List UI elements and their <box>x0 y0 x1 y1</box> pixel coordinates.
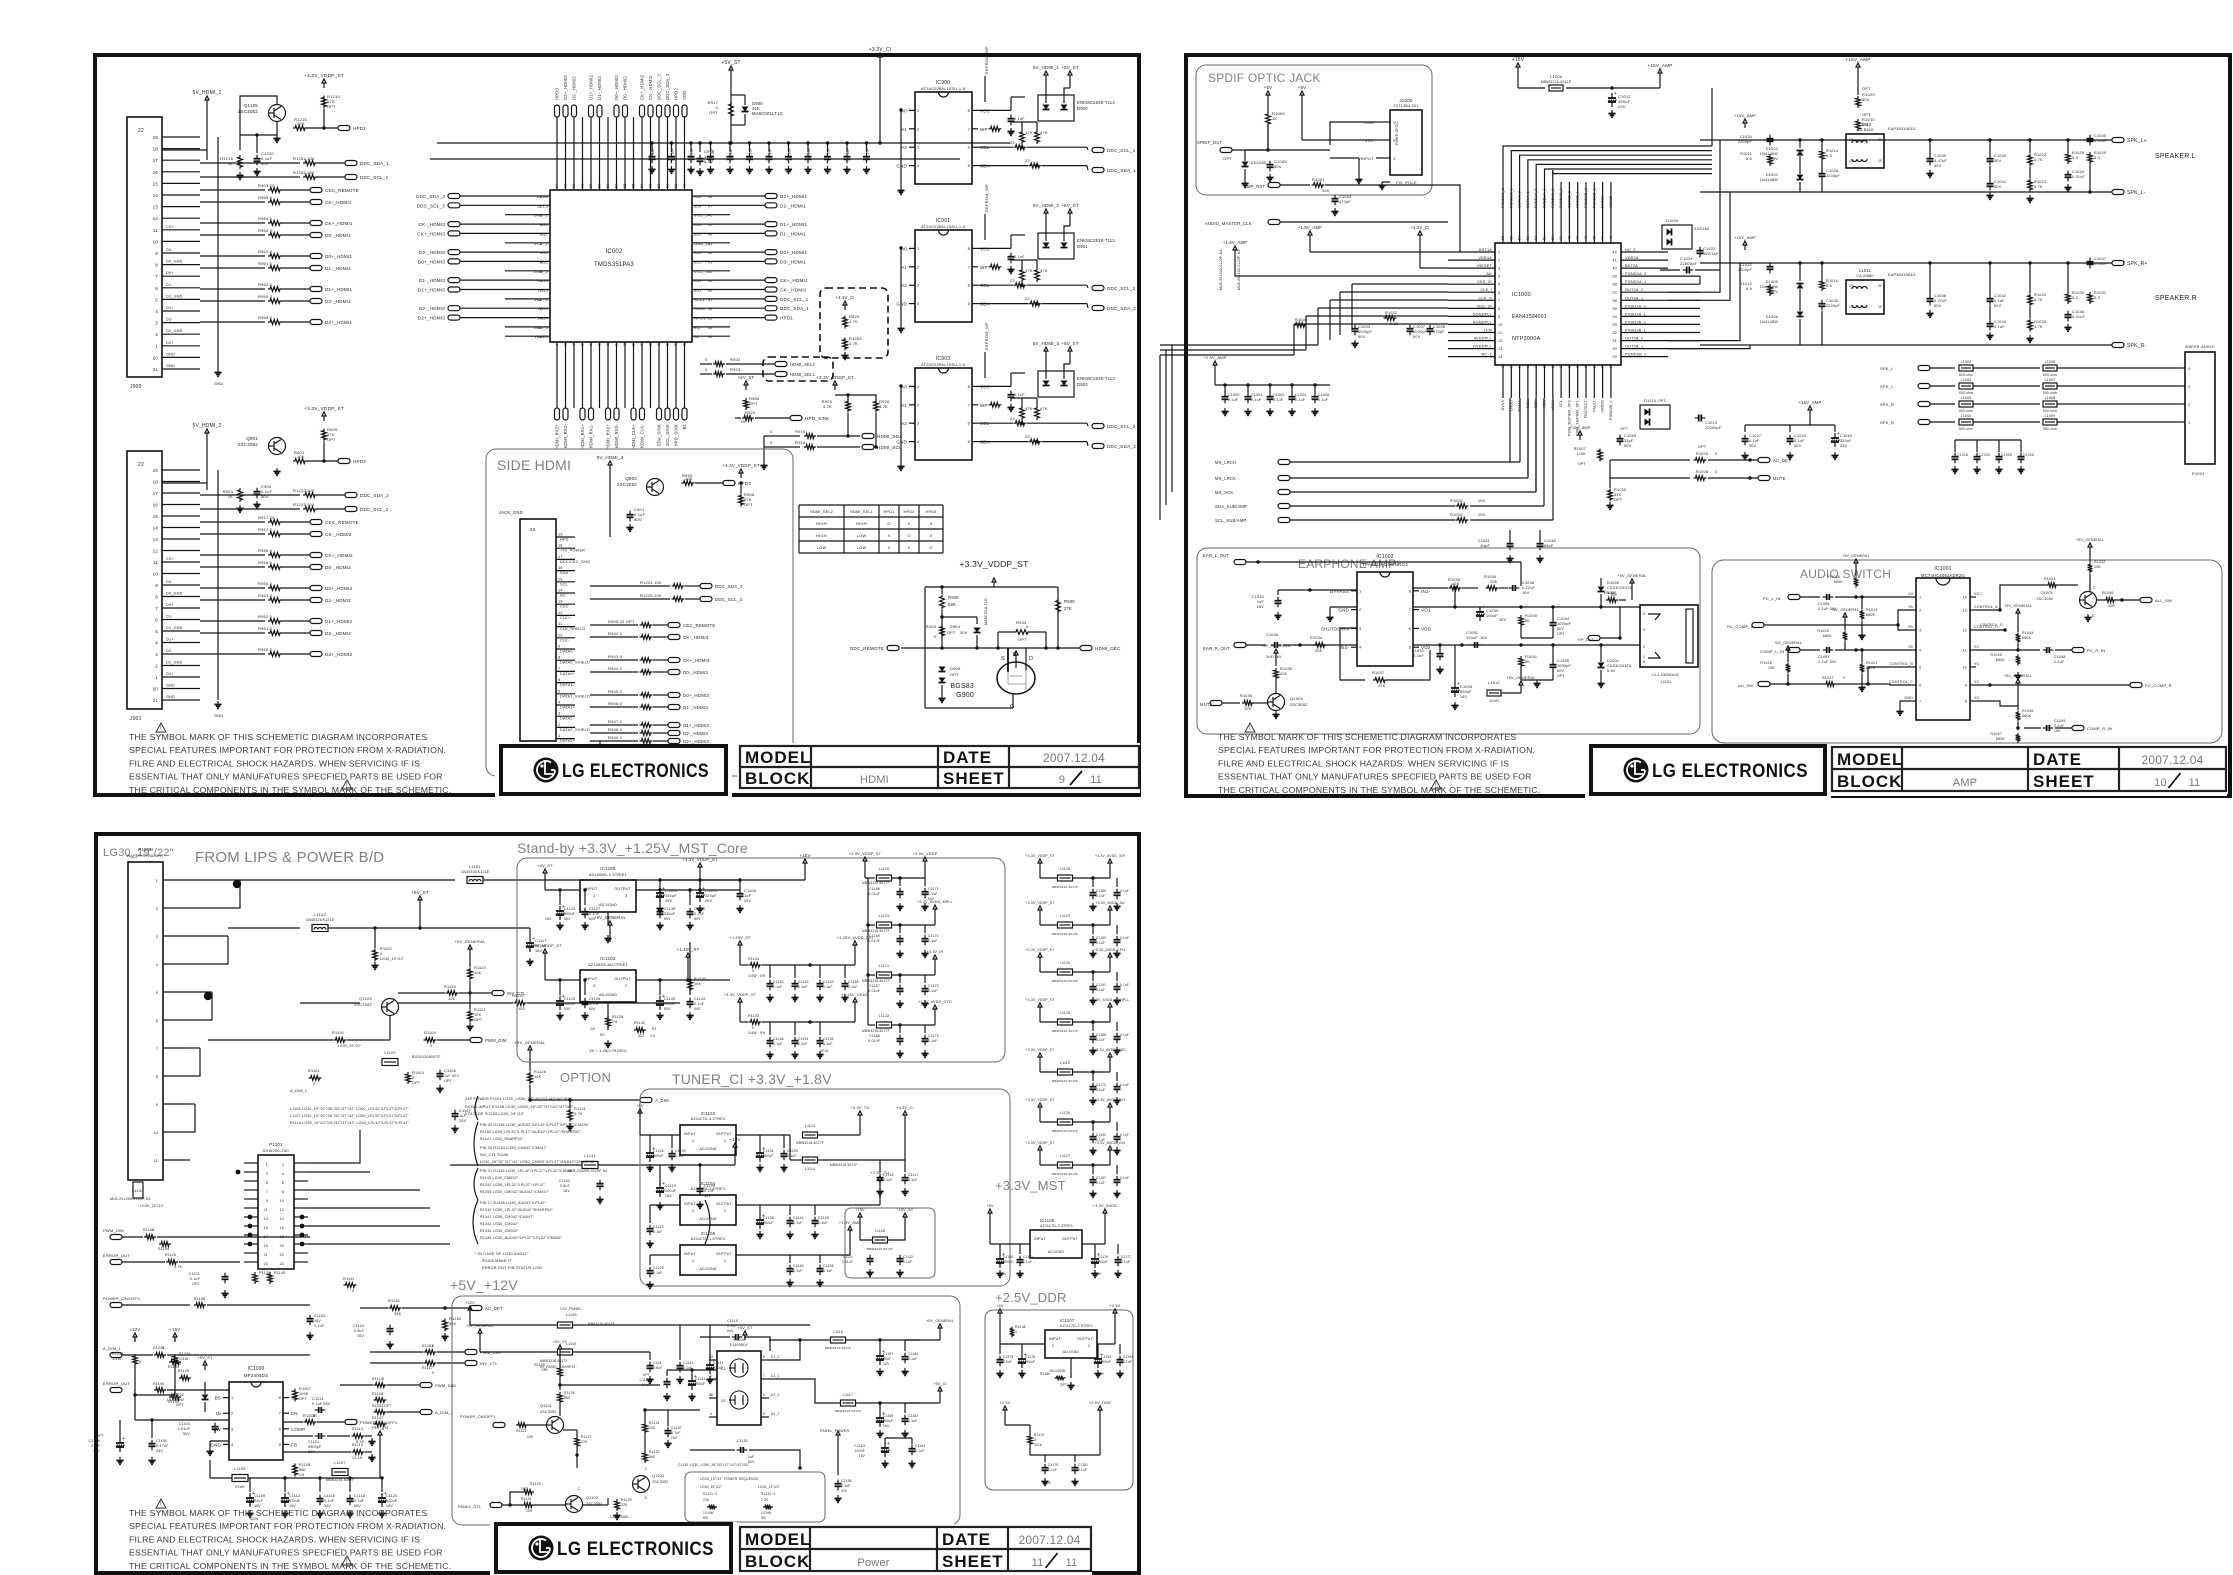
svg-text:EAR_L_OUT: EAR_L_OUT <box>1203 553 1229 558</box>
svg-text:+1.25V_VDDC: +1.25V_VDDC <box>841 993 868 997</box>
svg-text:LG30_19"/22": LG30_19"/22" <box>758 1485 780 1489</box>
svg-text:0.1uF: 0.1uF <box>1318 398 1329 402</box>
svg-text:BST1A: BST1A <box>1479 248 1492 252</box>
svg-text:50V: 50V <box>1794 444 1802 448</box>
svg-text:OUTPUT: OUTPUT <box>1077 1337 1094 1341</box>
svg-text:EAP38319DD1: EAP38319DD1 <box>1888 127 1916 131</box>
capacitor C1057 2.2uF <box>1823 649 1827 651</box>
svg-text:100uF: 100uF <box>665 1189 677 1193</box>
svg-text:R963 0: R963 0 <box>258 228 273 233</box>
svg-text:R945 0: R945 0 <box>608 689 623 694</box>
svg-text:D2_2: D2_2 <box>771 1393 779 1397</box>
resistor R1108 1K + POWER_ON/OFF1 <box>304 1420 317 1425</box>
resistor R919 <box>764 435 800 437</box>
svg-text:A2: A2 <box>901 283 907 288</box>
svg-text:C1048: C1048 <box>1522 581 1534 585</box>
svg-text:DATA1-: DATA1- <box>560 683 575 687</box>
power +12V +15V left <box>134 1337 136 1342</box>
svg-text:SPK_R-: SPK_R- <box>2127 343 2146 349</box>
svg-text:R1047: R1047 <box>1990 732 2002 736</box>
svg-text:R1121: R1121 <box>474 1008 486 1012</box>
svg-text:5: 5 <box>1498 283 1500 287</box>
svg-text:D0+_HDMI2: D0+_HDMI2 <box>614 75 619 100</box>
svg-text:1000pF: 1000pF <box>1358 330 1373 334</box>
svg-text:C1128: C1128 <box>589 997 600 1001</box>
svg-text:0.1uF: 0.1uF <box>1120 1083 1129 1087</box>
svg-text:47K: 47K <box>1025 406 1033 411</box>
svg-text:5: 5 <box>968 439 971 444</box>
power +3.3V_VDDP_ST <box>323 83 325 88</box>
svg-text:D904: D904 <box>950 624 961 629</box>
svg-text:OPT: OPT <box>1018 637 1027 642</box>
svg-text:0.1uF: 0.1uF <box>1120 889 1129 893</box>
svg-text:D0-_HDMI1: D0-_HDMI1 <box>780 259 806 264</box>
power +3.3V_VDDP_ST mid <box>834 385 836 390</box>
svg-text:R1256: R1256 <box>112 1352 124 1356</box>
terminal HP_DET <box>1588 636 1600 641</box>
option braces <box>473 1096 710 1244</box>
svg-text:10K: 10K <box>297 454 305 459</box>
svg-text:DDC_REMOTE: DDC_REMOTE <box>850 646 884 651</box>
svg-text:R1003: R1003 <box>1696 452 1708 456</box>
svg-text:R1119: R1119 <box>444 985 456 989</box>
svg-text:0.1uF: 0.1uF <box>1023 1260 1032 1264</box>
svg-text:INPUT: INPUT <box>684 1252 696 1256</box>
svg-text:TUNER_CI +3.3V_+1.8V: TUNER_CI +3.3V_+1.8V <box>672 1071 832 1087</box>
svg-text:0.1uF: 0.1uF <box>768 148 772 158</box>
svg-text:4.7K: 4.7K <box>2034 158 2043 162</box>
svg-text:C1028: C1028 <box>1826 169 1838 173</box>
svg-text:DDC_SDA_1: DDC_SDA_1 <box>1107 168 1136 173</box>
svg-text:0.1uF: 0.1uF <box>589 912 600 916</box>
svg-text:4: 4 <box>155 641 158 646</box>
svg-text:2: 2 <box>231 1411 234 1416</box>
svg-text:C1152: C1152 <box>798 980 809 984</box>
svg-text:1: 1 <box>156 878 159 883</box>
resistor R924 OPT <box>735 417 741 419</box>
inductor L1113 MBW3216-501TF <box>803 1132 818 1138</box>
svg-text:0.1uF: 0.1uF <box>694 912 705 916</box>
svg-text:HPD3: HPD3 <box>738 481 751 486</box>
svg-text:13: 13 <box>153 537 159 542</box>
svg-text:+3.3V_AVDD_LPLL: +3.3V_AVDD_LPLL <box>1094 948 1127 952</box>
svg-text:R1101: R1101 <box>308 1069 320 1073</box>
svg-text:50V: 50V <box>1274 164 1282 169</box>
svg-text:MODEL: MODEL <box>745 748 811 767</box>
svg-text:IC1002: IC1002 <box>1376 554 1393 560</box>
svg-text:0.1uF: 0.1uF <box>694 1002 705 1006</box>
svg-text:0: 0 <box>432 1371 434 1375</box>
svg-text:MBW3216-501TF: MBW3216-501TF <box>796 1141 824 1145</box>
svg-text:42: 42 <box>1612 251 1617 255</box>
svg-text:4.7K: 4.7K <box>2034 325 2043 329</box>
svg-text:SCL_SUB/AMP: SCL_SUB/AMP <box>1215 518 1247 523</box>
svg-text:C1142: C1142 <box>694 907 705 911</box>
svg-text:0.47uF: 0.47uF <box>1934 159 1948 163</box>
wire SHUTDOWN loop <box>1340 628 1365 680</box>
svg-text:C113: C113 <box>653 1361 661 1365</box>
resistor R1009 a <box>1610 459 1690 461</box>
svg-text:C1129: C1129 <box>653 1266 664 1270</box>
svg-text:16V/1uF: 16V/1uF <box>1703 252 1719 256</box>
svg-text:4: 4 <box>917 301 920 306</box>
svg-text:6: 6 <box>968 145 971 150</box>
svg-text:D2+_HDMI3: D2+_HDMI3 <box>418 316 445 321</box>
svg-text:24: 24 <box>615 341 619 346</box>
svg-text:C1115: C1115 <box>353 1324 364 1328</box>
terminal AMP_RST <box>1268 183 1280 188</box>
svg-text:D0-_HDMI1: D0-_HDMI1 <box>325 233 351 238</box>
resistor R1026 10K <box>1786 663 1791 674</box>
capacitor C1153 C1119 C1199 <box>599 1180 601 1184</box>
svg-text:PVDD2B_1: PVDD2B_1 <box>1625 329 1646 333</box>
svg-text:+1.25V_ST: +1.25V_ST <box>730 936 751 940</box>
capacitor C1022 0.1uF <box>1699 247 1701 251</box>
svg-text:3.3: 3.3 <box>2094 296 2100 300</box>
svg-text:+3.3V_VDDP_ST: +3.3V_VDDP_ST <box>682 857 718 862</box>
svg-text:50V: 50V <box>1862 97 1870 102</box>
caps C1157 C1160 <box>876 1338 918 1375</box>
op-amp IC1000 NTP3000A body <box>1495 243 1621 365</box>
svg-text:HPD1: HPD1 <box>780 316 793 321</box>
svg-text:0.1uF: 0.1uF <box>1120 1033 1129 1037</box>
svg-text:16V: 16V <box>535 949 543 953</box>
wire speaker L+ rail <box>1700 139 2112 141</box>
svg-text:A14: A14 <box>694 194 702 199</box>
svg-text:63: 63 <box>564 183 568 188</box>
transistor Q1009 <box>1268 694 1285 711</box>
svg-text:P1001: P1001 <box>2192 471 2205 476</box>
svg-text:COMP_R_IN: COMP_R_IN <box>2087 726 2112 731</box>
svg-text:21: 21 <box>153 698 159 703</box>
svg-text:CK+: CK+ <box>166 557 175 561</box>
svg-text:COMP_L_IN: COMP_L_IN <box>1760 649 1784 654</box>
power 5V_HDMI_1 <box>1045 75 1047 80</box>
svg-text:Stand-by +3.3V_+1.25V_MST_Core: Stand-by +3.3V_+1.25V_MST_Core <box>517 840 748 856</box>
svg-text:D1+_HDMI3: D1+_HDMI3 <box>683 723 709 728</box>
capacitor C1103 <box>214 1423 216 1427</box>
power +12V p1101 <box>734 1147 736 1152</box>
wire bundle IC1000 top to speaker rails <box>1503 88 1712 210</box>
svg-text:C1059: C1059 <box>2054 719 2066 723</box>
svg-text:D0+_HDMI3: D0+_HDMI3 <box>683 693 709 698</box>
svg-text:PWM_DIM: PWM_DIM <box>485 1038 507 1043</box>
resistor R1127 22K <box>575 1436 580 1448</box>
svg-text:R1105: R1105 <box>299 1463 310 1467</box>
terminal SPK_L+ <box>2112 138 2124 143</box>
svg-text:PROTECT: PROTECT <box>1584 399 1588 418</box>
svg-text:50V: 50V <box>183 1432 190 1436</box>
svg-text:12: 12 <box>1962 629 1967 633</box>
capacitor C1126 C1100 <box>119 1438 121 1443</box>
svg-text:2: 2 <box>724 1209 726 1213</box>
svg-text:D2+_HDMI2: D2+_HDMI2 <box>563 75 568 100</box>
resistor R1039 20K <box>1486 586 1499 591</box>
svg-text:D1+_HDMI1: D1+_HDMI1 <box>325 287 352 292</box>
svg-text:DGNDPLL: DGNDPLL <box>1473 312 1492 316</box>
svg-text:FAULT: FAULT <box>1592 399 1596 411</box>
speaker R filter caps <box>1926 257 2107 342</box>
svg-text:SDA: SDA <box>560 571 569 575</box>
svg-text:1K: 1K <box>312 1414 317 1418</box>
svg-text:WAFER-ANGLE: WAFER-ANGLE <box>2185 345 2215 349</box>
resistor R1107 100K OPT <box>293 1389 298 1402</box>
svg-text:DVDDPLL: DVDDPLL <box>1473 345 1492 349</box>
svg-text:SPK_L+: SPK_L+ <box>2127 138 2147 144</box>
pull-up resistors 47K <box>1020 406 1025 420</box>
svg-text:OPT: OPT <box>384 1404 392 1408</box>
svg-text:C1020: C1020 <box>1794 434 1806 438</box>
svg-text:C: C <box>578 1487 581 1491</box>
svg-text:YB: YB <box>1908 625 1914 629</box>
svg-text:CDS3C056TA: CDS3C056TA <box>1607 664 1632 668</box>
svg-text:+3.3V_VDDP_ST: +3.3V_VDDP_ST <box>1025 948 1054 952</box>
svg-text:50V: 50V <box>1934 304 1942 308</box>
svg-text:9: 9 <box>1965 684 1967 688</box>
svg-text:C1006: C1006 <box>1318 393 1330 397</box>
svg-text:1N4148W: 1N4148W <box>1760 152 1779 156</box>
svg-text:MA8C001LT1G: MA8C001LT1G <box>752 111 783 116</box>
svg-text:R1022: R1022 <box>2034 153 2046 157</box>
svg-text:C1193: C1193 <box>1101 1355 1111 1359</box>
terminal HPD2 <box>307 460 338 462</box>
svg-text:22000pF: 22000pF <box>1680 261 1698 266</box>
svg-text:R1124: R1124 <box>521 1497 532 1501</box>
svg-text:9: 9 <box>1498 315 1500 319</box>
svg-text:12: 12 <box>558 611 563 615</box>
resistor R1137 3216 <box>1028 1434 1033 1446</box>
ground D909 <box>941 695 943 699</box>
svg-text:C1173: C1173 <box>928 1034 939 1038</box>
svg-text:L1127: L1127 <box>1060 1154 1070 1158</box>
power +15V_AMP spk R <box>1744 245 1746 250</box>
resistor R1035 33K <box>1608 489 1613 502</box>
transistor Q1101 <box>547 1417 564 1434</box>
wires IC1000 right to filters <box>1668 140 1750 349</box>
svg-text:39: 39 <box>708 279 713 283</box>
svg-text:0.1uF: 0.1uF <box>793 1221 803 1225</box>
IC002 right terminals HDMI1 nets <box>730 194 809 321</box>
svg-text:6: 6 <box>540 242 542 246</box>
svg-text:HPD: HPD <box>560 538 569 542</box>
svg-text:7: 7 <box>763 1374 765 1378</box>
inductor L1116 <box>831 1337 846 1343</box>
svg-text:50V: 50V <box>1994 304 2002 308</box>
svg-text:HDMI_SDA: HDMI_SDA <box>877 434 903 439</box>
svg-text:C1154: C1154 <box>823 1037 834 1041</box>
svg-text:33: 33 <box>1612 323 1617 327</box>
svg-text:L1119: L1119 <box>1060 1061 1070 1065</box>
svg-text:C1161: C1161 <box>1023 1255 1033 1259</box>
svg-text:C1153: C1153 <box>559 1179 570 1183</box>
svg-text:AT24C02BN-10SU-1.8: AT24C02BN-10SU-1.8 <box>921 362 966 367</box>
resistor R1260 68K <box>443 1319 448 1332</box>
svg-text:R2: R2 <box>600 1033 605 1037</box>
svg-text:IC1107: IC1107 <box>1060 1318 1075 1323</box>
svg-text:L1102: L1102 <box>314 912 326 917</box>
panel 1 border (HDMI sheet) <box>95 55 1139 795</box>
resistor R1132 560 <box>643 1451 648 1463</box>
svg-text:Q1105: Q1105 <box>244 103 258 108</box>
svg-text:C1139: C1139 <box>787 1149 798 1153</box>
svg-text:0: 0 <box>1843 676 1845 680</box>
svg-text:+3.3V_VDDP_ST: +3.3V_VDDP_ST <box>1025 998 1054 1002</box>
svg-text:D1-: D1- <box>166 283 173 287</box>
svg-text:C1130: C1130 <box>737 1439 748 1443</box>
svg-text:C1101: C1101 <box>189 1272 200 1276</box>
inductor L1110 <box>558 1349 573 1355</box>
capacitor C1008 470pF <box>1429 325 1431 329</box>
svg-text:AD: AD <box>1486 272 1492 276</box>
svg-text:D1_GND: D1_GND <box>166 626 183 630</box>
svg-text:D0-_HDMI3: D0-_HDMI3 <box>683 670 708 675</box>
svg-text:FROM LIPS & POWER B/D: FROM LIPS & POWER B/D <box>195 849 384 866</box>
svg-text:CONTROL_A: CONTROL_A <box>1974 605 1998 609</box>
svg-text:50: 50 <box>1551 236 1555 240</box>
svg-text:48: 48 <box>708 195 713 199</box>
capacitor C1107 1uF 25V <box>454 1110 456 1114</box>
wire J901 gnd bus <box>217 470 219 700</box>
svg-text:R1014: R1014 <box>1826 149 1838 153</box>
transistor Q902 <box>647 479 664 496</box>
resistor R1010 5.6 <box>1856 119 1861 131</box>
diode pack D1009 XDS164 <box>1662 219 1709 249</box>
svg-text:0: 0 <box>162 1346 164 1350</box>
svg-text:0.01uF: 0.01uF <box>2094 139 2108 143</box>
svg-text:11: 11 <box>1032 1557 1044 1569</box>
svg-text:SCL: SCL <box>560 582 568 586</box>
svg-text:C1112: C1112 <box>289 1494 300 1498</box>
svg-text:LG30_19"/22": LG30_19"/22" <box>700 1485 722 1489</box>
svg-text:10: 10 <box>153 239 159 244</box>
caps C1163 C1164 PANEL_POWER <box>820 1429 925 1475</box>
pull-up resistors 47K <box>1020 130 1025 144</box>
svg-text:D1102: D1102 <box>173 1393 184 1397</box>
svg-text:DDC_SCL_1: DDC_SCL_1 <box>1107 148 1136 153</box>
capacitor C1029 row <box>1856 86 1876 108</box>
IC1000 top pins <box>1501 188 1613 243</box>
svg-text:1/4W: 1/4W <box>179 1357 189 1361</box>
svg-text:100K: 100K <box>299 1392 309 1396</box>
svg-text:R1004: R1004 <box>1450 513 1462 517</box>
svg-text:A_DIM_1: A_DIM_1 <box>290 1089 307 1093</box>
svg-text:14: 14 <box>153 193 159 198</box>
svg-text:!: ! <box>1435 783 1437 789</box>
svg-text:R946 0: R946 0 <box>608 701 623 706</box>
svg-text:L1131: L1131 <box>584 1154 595 1158</box>
svg-text:58K: 58K <box>948 602 956 607</box>
junction dots P1101 <box>236 1170 305 1247</box>
svg-text:OPT: OPT <box>444 1079 453 1083</box>
terminal HPD1 <box>307 127 338 129</box>
wire J900 gnd bus <box>217 137 219 369</box>
svg-text:6: 6 <box>1919 684 1921 688</box>
svg-text:0.1uF: 0.1uF <box>690 148 694 158</box>
svg-text:C1148: C1148 <box>773 1037 784 1041</box>
svg-text:13: 13 <box>264 1217 268 1221</box>
standby caps row1 <box>545 888 705 929</box>
svg-text:IN: IN <box>216 1411 221 1416</box>
svg-text:CK+_HDMI2: CK+_HDMI2 <box>640 74 645 100</box>
svg-text:R1115: R1115 <box>352 1443 363 1447</box>
svg-text:+15V: +15V <box>1512 57 1525 63</box>
svg-text:4.7K: 4.7K <box>174 1265 183 1269</box>
svg-text:AZ1117D-2.5TRE1: AZ1117D-2.5TRE1 <box>1060 1324 1093 1328</box>
svg-text:0.1uF: 0.1uF <box>788 148 792 158</box>
svg-text:L1103: L1103 <box>384 1051 395 1055</box>
svg-text:16V: 16V <box>1480 636 1488 640</box>
svg-text:SPDIF_OUT: SPDIF_OUT <box>1197 140 1223 145</box>
svg-text:4: 4 <box>540 223 542 227</box>
svg-text:25V: 25V <box>459 1119 467 1123</box>
resistor R1038 47K <box>1413 587 1448 589</box>
svg-text:0.1uF: 0.1uF <box>823 1042 833 1046</box>
svg-text:D1_GND: D1_GND <box>166 294 183 298</box>
svg-text:5.6: 5.6 <box>1826 154 1832 158</box>
svg-text:VDD: VDD <box>682 91 687 100</box>
capacitor C1130 <box>737 1449 741 1451</box>
svg-text:13: 13 <box>1498 347 1503 351</box>
svg-text:2: 2 <box>917 126 920 131</box>
diode pack D901 <box>1038 233 1115 259</box>
svg-text:D0+: D0+ <box>166 603 174 607</box>
svg-text:L1122: L1122 <box>879 1014 890 1018</box>
capacitor C1117 220uF <box>529 938 531 943</box>
svg-text:680K: 680K <box>1834 580 1844 584</box>
svg-text:+5V_ST: +5V_ST <box>1061 341 1079 346</box>
svg-text:6: 6 <box>558 678 560 682</box>
svg-text:R951 0: R951 0 <box>258 626 273 631</box>
svg-text:ENKMC2838-T112: ENKMC2838-T112 <box>1077 100 1115 105</box>
svg-text:3: 3 <box>593 984 595 988</box>
svg-text:2SC3052: 2SC3052 <box>617 482 637 487</box>
svg-text:+1.5V_AMP: +1.5V_AMP <box>1203 355 1226 360</box>
svg-text:GND_D: GND_D <box>694 241 709 246</box>
svg-text:D2-_HDMI2: D2-_HDMI2 <box>572 76 577 100</box>
svg-text:PC_COMP_R: PC_COMP_R <box>2145 683 2172 688</box>
svg-text:+3.3V_IR: +3.3V_IR <box>927 950 944 954</box>
svg-text:5: 5 <box>1643 660 1645 664</box>
svg-text:4: 4 <box>2188 367 2190 371</box>
svg-text:2S: 2S <box>1849 284 1854 288</box>
svg-text:0.01uF: 0.01uF <box>868 1039 880 1043</box>
svg-text:0.1uF: 0.1uF <box>793 1269 803 1273</box>
standby right regulators +1.25V <box>724 936 873 1058</box>
svg-text:BGS83: BGS83 <box>950 683 974 690</box>
svg-text:1: 1 <box>266 1163 268 1167</box>
svg-text:5.6: 5.6 <box>1746 287 1752 291</box>
svg-text:INPUT: INPUT <box>585 977 598 981</box>
svg-text:8: 8 <box>540 260 542 264</box>
svg-text:3: 3 <box>593 894 595 898</box>
svg-text:16V: 16V <box>357 1334 364 1338</box>
svg-text:22: 22 <box>1025 158 1030 163</box>
connector J1000 <box>1358 98 1422 175</box>
svg-text:0.1uF: 0.1uF <box>1120 1176 1129 1180</box>
HPD selection table <box>799 505 943 553</box>
svg-text:+15V_AMP: +15V_AMP <box>1734 235 1756 240</box>
series resistor SDA 22 <box>978 441 1028 443</box>
svg-text:C1191: C1191 <box>1096 983 1106 987</box>
svg-text:C1118: C1118 <box>354 1494 365 1498</box>
svg-text:CONTROL_C: CONTROL_C <box>1889 680 1913 684</box>
resistor R901 <box>293 459 307 464</box>
svg-text:680K: 680K <box>1823 634 1833 638</box>
svg-text:1: 1 <box>155 344 158 349</box>
svg-text:L1116: L1116 <box>833 1330 843 1334</box>
svg-text:32: 32 <box>683 341 687 346</box>
svg-text:0.1uF: 0.1uF <box>1096 894 1105 898</box>
